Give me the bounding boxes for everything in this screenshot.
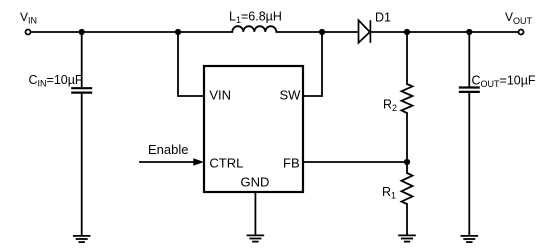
wire CIN vertical upper	[81, 32, 83, 87]
op-amp style IC box U1	[204, 66, 303, 192]
wire COUT vertical lower to ground	[468, 93, 470, 235]
wire CIN vertical lower to ground	[81, 94, 83, 236]
wire R2 top to rail	[406, 32, 408, 84]
svg-text:VOUT: VOUT	[505, 10, 533, 26]
resistor R1	[402, 173, 413, 204]
svg-text:FB: FB	[283, 156, 300, 171]
diode D1	[359, 20, 371, 43]
wire Enable line	[140, 161, 196, 163]
capacitor COUT	[459, 88, 480, 92]
node junction dot VIN riser	[175, 29, 181, 35]
svg-text:Enable: Enable	[148, 142, 188, 157]
ground symbol under COUT	[461, 236, 479, 242]
wire COUT vertical upper	[468, 32, 470, 87]
Enable arrowhead	[193, 158, 204, 165]
wire top rail from diode cathode to VOUT terminal	[370, 31, 518, 33]
ground symbol under IC GND pin	[247, 235, 265, 241]
svg-text:VIN: VIN	[209, 88, 231, 103]
ground symbol under R1	[398, 235, 416, 241]
inductor L1	[232, 26, 276, 32]
svg-text:GND: GND	[241, 174, 270, 189]
capacitor CIN	[71, 88, 92, 92]
wire R2 bottom to node	[406, 113, 408, 162]
svg-text:VIN: VIN	[20, 10, 37, 26]
svg-text:COUT=10µF: COUT=10µF	[472, 74, 536, 90]
svg-text:SW: SW	[280, 88, 302, 103]
ground symbol under CIN	[73, 236, 91, 242]
wire R1 bottom to ground	[406, 204, 408, 235]
node junction dot COUT	[466, 29, 472, 35]
svg-text:CIN=10µF: CIN=10µF	[29, 73, 83, 89]
wire FB pin to divider node	[303, 161, 407, 163]
wire VIN pin riser and horizontal into pin	[178, 32, 204, 96]
svg-text:L1=6.8µH: L1=6.8µH	[229, 10, 282, 26]
node junction dot SW riser	[319, 29, 325, 35]
resistor R2	[402, 84, 413, 113]
terminal VOUT open circle	[519, 30, 524, 35]
node junction dot feedback divider	[404, 159, 410, 165]
svg-text:CTRL: CTRL	[209, 156, 243, 171]
terminal VIN open circle	[26, 30, 31, 35]
wire R1 top from node	[406, 162, 408, 173]
svg-text:R1: R1	[382, 185, 396, 201]
svg-text:D1: D1	[375, 11, 391, 25]
node junction dot R2 top	[404, 29, 410, 35]
wire GND pin to ground	[254, 192, 256, 235]
wire top rail from inductor to diode anode	[276, 31, 358, 33]
wire top rail from VIN terminal to inductor	[31, 31, 232, 33]
svg-text:R2: R2	[383, 98, 397, 114]
wire SW pin riser and horizontal into pin	[303, 32, 322, 96]
node junction dot CIN	[79, 29, 85, 35]
